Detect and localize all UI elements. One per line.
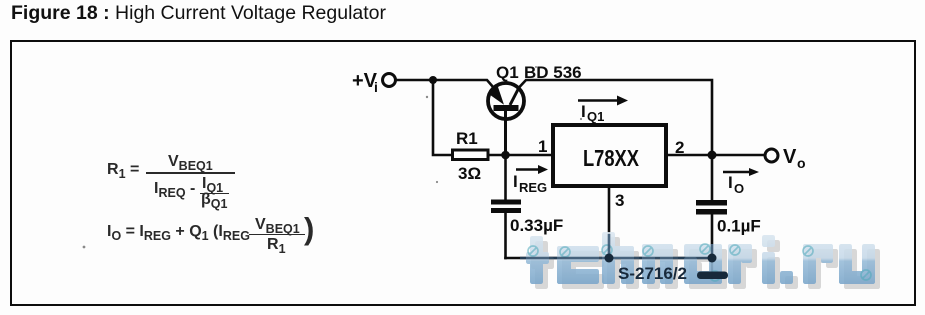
svg-text:O: O — [734, 181, 744, 196]
wire output node down to C2 — [711, 155, 714, 200]
wire regulator pin 3 down to ground rail — [608, 188, 611, 258]
wire Q1 collector to top rail and down to output node — [519, 80, 713, 155]
svg-text:R1: R1 — [456, 129, 478, 148]
svg-text:I: I — [513, 172, 518, 191]
wire regulator pin 2 to output node — [668, 154, 712, 157]
label Vo — [783, 146, 806, 171]
current arrow IO — [723, 168, 759, 196]
wire ground rail (overlay tint through watermark) — [520, 234, 712, 258]
wire junction to Q1 emitter — [433, 80, 494, 88]
title caption — [11, 2, 386, 25]
svg-text:i: i — [374, 79, 378, 95]
svg-text:0.1µF: 0.1µF — [717, 217, 761, 236]
wire Q1 base down to input node — [504, 110, 507, 155]
wire ground stub — [711, 258, 714, 272]
scan speckles — [83, 66, 583, 248]
junction dot output node — [708, 151, 717, 160]
svg-text:Q1: Q1 — [587, 109, 604, 124]
wire +Vi to junction — [396, 79, 433, 82]
junction dot Vi node — [429, 76, 437, 84]
svg-text:o: o — [797, 155, 806, 171]
junction dot input node — [501, 151, 510, 160]
svg-text:2: 2 — [675, 138, 684, 157]
op-amp U1 regulator L78XX — [553, 125, 666, 186]
wire C2 to ground rail — [711, 216, 714, 259]
wire Vi junction down to R1 — [433, 80, 451, 155]
svg-text:S-2716/2: S-2716/2 — [618, 264, 687, 283]
svg-text:REG: REG — [519, 180, 547, 195]
svg-text:V: V — [783, 146, 797, 168]
wire R1 to regulator pin 1 — [490, 154, 551, 157]
svg-text:3Ω: 3Ω — [458, 164, 481, 183]
wire ground rail — [506, 257, 713, 260]
current arrow IREG — [513, 165, 548, 195]
transistor Q1 — [488, 83, 524, 119]
wire input node down to C1 — [504, 155, 507, 200]
capacitor C2 0.1uF — [696, 200, 727, 215]
svg-text:1: 1 — [538, 137, 547, 156]
junction dot C2 ground — [708, 254, 717, 263]
svg-text:0.33µF: 0.33µF — [510, 216, 563, 235]
svg-text:L78XX: L78XX — [583, 145, 640, 171]
current arrow IQ1 — [578, 96, 628, 125]
label Q1 BD536 — [496, 63, 582, 82]
node +Vi terminal — [383, 74, 396, 87]
formula IO = IREG + Q1 (IREG VBEQ1/R1) — [0, 0, 925, 1]
svg-text:Q1: Q1 — [496, 63, 519, 82]
svg-text:I: I — [581, 102, 586, 121]
svg-text:BD 536: BD 536 — [524, 63, 582, 82]
wire output node to Vo terminal — [712, 154, 765, 157]
capacitor C1 0.33uF — [491, 200, 521, 214]
ground — [697, 272, 728, 280]
svg-text:3: 3 — [615, 191, 624, 210]
label +Vi — [352, 70, 378, 95]
wire C1 to ground rail — [504, 213, 507, 258]
formula R1 = VBEQ1 / (IREQ - IQ1/BQ1) — [0, 0, 925, 1]
junction dot pin3 ground — [605, 254, 614, 263]
node Vo terminal — [765, 149, 778, 162]
svg-text:I: I — [728, 173, 733, 192]
watermark tehnari.ru — [526, 232, 880, 289]
resistor R1 — [453, 150, 489, 160]
